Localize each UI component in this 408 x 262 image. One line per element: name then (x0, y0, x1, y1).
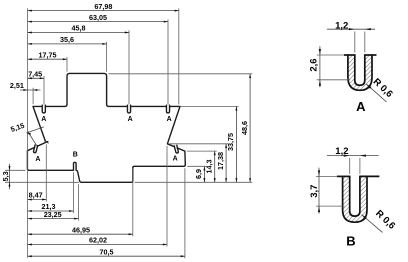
extension x=44 (7,45) (43, 76, 45, 105)
extension top surface to 33,75 (181, 105, 239, 107)
svg-text:6,9: 6,9 (194, 169, 203, 179)
svg-text:46,95: 46,95 (72, 225, 90, 234)
detail A dimension 1,2 (327, 20, 375, 52)
detail B radius R 0,6 (362, 208, 398, 232)
extension x=178.8 (67,98) (178, 8, 180, 104)
svg-text:A: A (41, 116, 46, 123)
detail A dimension 2,6 (309, 46, 351, 87)
svg-text:A: A (356, 99, 366, 114)
dimension 33,75 (226, 106, 237, 182)
svg-text:67,98: 67,98 (94, 2, 112, 11)
dimension 48,6 (240, 74, 251, 183)
extension x=78.4 (23,25) (77, 184, 79, 220)
svg-text:A: A (35, 156, 40, 163)
svg-text:14,3: 14,3 (205, 160, 214, 174)
detail view A (344, 54, 377, 90)
extension x=67 (17,75) (66, 57, 68, 72)
svg-text:23,25: 23,25 (44, 210, 62, 219)
svg-text:35,6: 35,6 (60, 35, 74, 44)
dimension 21,3 (28, 202, 74, 212)
dimension 17,38 (216, 144, 227, 183)
dimension 45,8 (28, 24, 129, 34)
svg-text:A: A (173, 156, 178, 163)
dimension 5,15 (9, 121, 48, 146)
dimension 8,47 (28, 191, 47, 201)
svg-text:1,2: 1,2 (335, 20, 348, 31)
svg-text:2,51: 2,51 (10, 81, 24, 90)
svg-text:2,6: 2,6 (309, 58, 320, 71)
dimension 63,05 (28, 13, 168, 23)
slot A on right ledge (174, 145, 178, 153)
dimension 5,3 (1, 164, 11, 189)
svg-text:63,05: 63,05 (89, 13, 107, 22)
detail A radius R 0,6 (366, 76, 395, 102)
detail B dimension 1,2 (327, 146, 379, 174)
svg-text:33,75: 33,75 (226, 133, 235, 151)
svg-text:62,02: 62,02 (89, 236, 107, 245)
dimension 14,3 (205, 151, 216, 182)
extension x=184.9 (70,5) (184, 168, 186, 258)
slot A at x=168.0 (top surface) (166, 105, 169, 113)
detail view B (337, 176, 380, 223)
svg-text:8,47: 8,47 (29, 191, 43, 200)
extension y=151.1 to 14,3 (187, 150, 217, 152)
extension floor left to 5,3 (5, 181, 79, 183)
svg-text:70,5: 70,5 (100, 247, 114, 256)
svg-text:B: B (346, 233, 355, 248)
dimension 70,5 (28, 247, 185, 257)
left reference extension line (27, 8, 29, 258)
svg-text:A: A (128, 116, 133, 123)
svg-text:48,6: 48,6 (240, 121, 249, 135)
extension y=143.8 to 17,38 (169, 143, 228, 145)
extension x=129 (45,8) (128, 30, 130, 104)
extension x=167 (62,02) (166, 146, 168, 247)
slot A on left ledge (33, 145, 37, 153)
dimension 46,95 (28, 225, 133, 235)
extension x=73.4 (21,3) (72, 172, 74, 213)
dimension 7,45 (28, 70, 44, 80)
svg-text:5,3: 5,3 (1, 171, 10, 181)
dimension 62,02 (28, 236, 167, 246)
extension bump top to 48,6 (109, 73, 253, 75)
extension x=46.3 (8,47) (45, 144, 47, 201)
extension x=132.8 (46,95) (132, 168, 134, 236)
extension floor right to 48,6 (135, 181, 253, 183)
svg-text:45,8: 45,8 (72, 24, 86, 33)
svg-text:7,45: 7,45 (28, 70, 42, 79)
slot A at x=129.0 (top surface) (127, 105, 130, 113)
svg-text:B: B (73, 152, 78, 159)
dimension 2,51 (10, 81, 41, 91)
extension x=106.6 (35,6) (106, 42, 108, 72)
svg-text:1,2: 1,2 (335, 146, 348, 157)
extension x=168 (63,05) (167, 19, 169, 104)
dimension 67,98 (28, 2, 179, 12)
svg-text:A: A (167, 116, 172, 123)
extension x=33.1 (2,51) (32, 88, 34, 104)
dimension 6,9 (194, 166, 205, 182)
svg-text:3,7: 3,7 (309, 185, 320, 198)
extension left bottom edge to 5,3 (5, 169, 25, 171)
extension y=166.3 to 6,9 (187, 165, 206, 167)
svg-text:17,75: 17,75 (39, 50, 57, 59)
dimension 17,75 (28, 50, 67, 60)
slot A at x=43.8 (top surface) (42, 105, 45, 113)
dimension 23,25 (28, 210, 79, 220)
detail B dimension 3,7 (309, 168, 345, 214)
dimension 35,6 (28, 35, 107, 45)
svg-text:17,38: 17,38 (216, 152, 225, 170)
main profile outline (27, 73, 185, 182)
